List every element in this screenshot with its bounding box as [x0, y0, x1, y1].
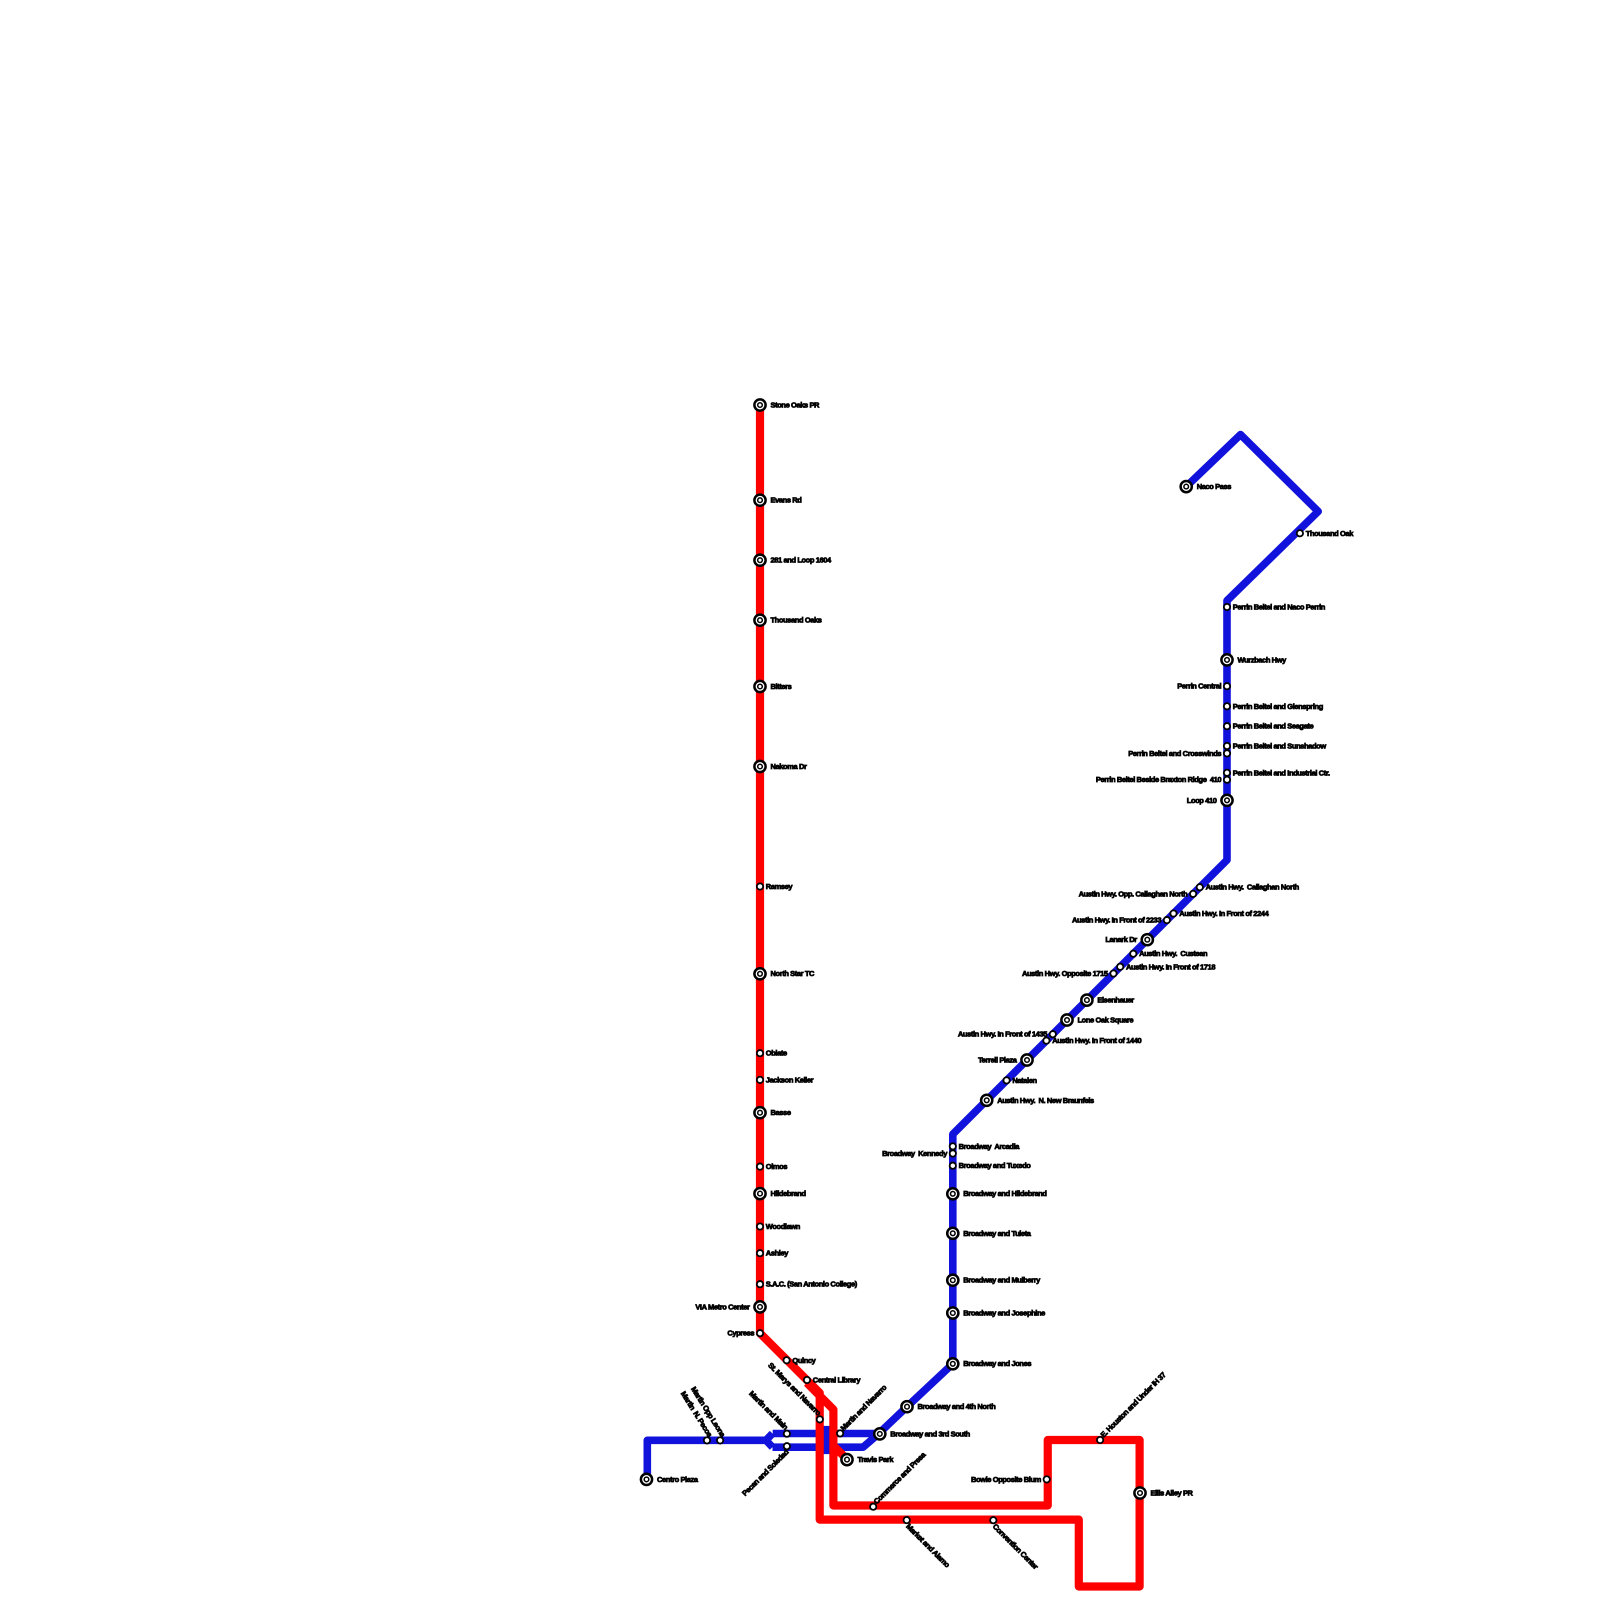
- blue stop Austin Hwy. Callaghan North: [1197, 883, 1300, 892]
- svg-text:Ashley: Ashley: [766, 1249, 789, 1258]
- red station North Star TC: [754, 968, 815, 979]
- svg-text:Loop 410: Loop 410: [1187, 796, 1217, 805]
- blue station Loop 410: [1187, 795, 1233, 806]
- svg-text:281 and Loop 1604: 281 and Loop 1604: [771, 556, 833, 565]
- blue stop Broadway Arcadia: [950, 1142, 1021, 1151]
- red stop Woodlawn: [757, 1222, 801, 1231]
- svg-text:Thousand Oaks: Thousand Oaks: [771, 616, 822, 625]
- blue stop Perrin Beitel and Industrial Ctr.: [1224, 768, 1330, 777]
- blue stop Austin Hwy. In Front of 2244: [1170, 909, 1269, 918]
- blue station Lone Oak Square: [1061, 1014, 1133, 1025]
- svg-text:Nakoma Dr: Nakoma Dr: [771, 762, 807, 771]
- blue stop Austin Hwy. In Front of 2233: [1072, 916, 1170, 925]
- blue station Terrell Plaza: [978, 1054, 1033, 1065]
- svg-text:Austin Hwy. In Front of 2244: Austin Hwy. In Front of 2244: [1179, 909, 1269, 918]
- svg-text:Broadway and Tuxedo: Broadway and Tuxedo: [959, 1161, 1032, 1170]
- red stop Olmos: [757, 1162, 788, 1171]
- red station Evans Rd: [754, 495, 802, 506]
- blue station Broadway and Hildebrand: [947, 1188, 1047, 1199]
- blue station Wurzbach Hwy: [1221, 654, 1287, 665]
- blue stop Martin N. Pecos: [679, 1390, 714, 1444]
- svg-text:Austin Hwy. Custean: Austin Hwy. Custean: [1139, 949, 1208, 958]
- blue line: west turnaround fork: [766, 1434, 773, 1448]
- blue station Broadway and Jones: [947, 1358, 1031, 1369]
- blue line: main trunk Naco Pass to downtown: [773, 435, 1318, 1434]
- svg-text:Broadway Arcadia: Broadway Arcadia: [959, 1142, 1021, 1151]
- blue stop Martin and Main: [747, 1389, 790, 1437]
- svg-text:Natalen: Natalen: [1012, 1076, 1037, 1085]
- red station VIA Metro Center: [695, 1301, 765, 1312]
- svg-text:Broadway and 4th North: Broadway and 4th North: [918, 1402, 997, 1411]
- svg-text:Broadway and Tuleta: Broadway and Tuleta: [963, 1229, 1032, 1238]
- blue stop Thousand Oak: [1297, 529, 1354, 538]
- svg-text:Broadway and Hildebrand: Broadway and Hildebrand: [963, 1189, 1047, 1198]
- red stop Market and Alamo: [904, 1517, 953, 1570]
- blue stop Martin Opp Leona: [689, 1385, 728, 1444]
- red station Ellis Alley PR: [1134, 1487, 1193, 1498]
- red stop Ashley: [757, 1249, 789, 1258]
- svg-text:Centro Plaza: Centro Plaza: [657, 1475, 699, 1484]
- svg-text:Lone Oak Square: Lone Oak Square: [1078, 1016, 1134, 1025]
- blue stop Perrin Beitel and Crosswinds: [1128, 749, 1230, 758]
- red stop St. Marys and Navarro: [766, 1361, 823, 1423]
- svg-text:Cypress: Cypress: [727, 1329, 754, 1338]
- svg-text:Terrell Plaza: Terrell Plaza: [978, 1056, 1018, 1065]
- svg-text:Perrin Beitel and Industrial C: Perrin Beitel and Industrial Ctr.: [1233, 768, 1330, 777]
- svg-text:Lanark Dr: Lanark Dr: [1105, 935, 1137, 944]
- svg-text:Woodlawn: Woodlawn: [766, 1222, 801, 1231]
- svg-text:North Star TC: North Star TC: [771, 969, 816, 978]
- svg-text:Perrin Beitel and Glenspring: Perrin Beitel and Glenspring: [1233, 702, 1324, 711]
- blue station Broadway and Tuleta: [947, 1228, 1032, 1239]
- svg-text:Central Library: Central Library: [813, 1376, 862, 1385]
- blue station Lanark Dr: [1105, 934, 1153, 945]
- svg-text:Austin Hwy. In Front of 1440: Austin Hwy. In Front of 1440: [1052, 1036, 1141, 1045]
- red stop S.A.C. (San Antonio College): [757, 1280, 858, 1289]
- svg-text:Austin Hwy. Opposite 1715: Austin Hwy. Opposite 1715: [1022, 969, 1108, 978]
- svg-text:Jackson Keller: Jackson Keller: [766, 1075, 814, 1084]
- svg-text:Naco Pass: Naco Pass: [1197, 482, 1232, 491]
- red stop Oblate: [757, 1049, 787, 1058]
- red stop E. Houston and Under IH 37: [1097, 1370, 1168, 1443]
- svg-text:Broadway and Josephine: Broadway and Josephine: [963, 1309, 1045, 1318]
- svg-text:Bitters: Bitters: [771, 682, 792, 691]
- blue station Broadway and Mulberry: [947, 1275, 1041, 1286]
- blue station Austin Hwy. N. New Braunfels: [981, 1095, 1094, 1106]
- svg-text:Perrin Beitel and Seagate: Perrin Beitel and Seagate: [1233, 722, 1314, 731]
- red line: main trunk Stone Oaks PR to downtown loop: [760, 405, 1140, 1587]
- red stop Central Library: [804, 1376, 862, 1385]
- svg-text:Oblate: Oblate: [766, 1049, 787, 1058]
- blue station Broadway and 3rd South: [874, 1428, 970, 1439]
- blue stop Pecan and Soledad: [740, 1443, 791, 1498]
- red station Stone Oaks PR: [754, 399, 820, 410]
- svg-text:Ellis Alley PR: Ellis Alley PR: [1151, 1489, 1194, 1498]
- red stop Bowie Opposite Blum: [971, 1475, 1050, 1484]
- svg-text:Broadway and Mulberry: Broadway and Mulberry: [963, 1276, 1041, 1285]
- svg-text:Hildebrand: Hildebrand: [771, 1189, 807, 1198]
- svg-text:Thousand Oak: Thousand Oak: [1306, 529, 1355, 538]
- blue stop Martin and Navarro: [837, 1383, 889, 1437]
- blue stop Broadway and Tuxedo: [950, 1161, 1032, 1170]
- blue stop Perrin Beitel and Sunshadow: [1224, 742, 1326, 751]
- svg-text:Broadway and Jones: Broadway and Jones: [963, 1359, 1031, 1368]
- red stop Cypress: [727, 1329, 763, 1338]
- red stop Commerce and Presa: [870, 1450, 928, 1510]
- svg-text:Austin Hwy. In Front of 1435: Austin Hwy. In Front of 1435: [958, 1030, 1047, 1039]
- blue stop Perrin Central: [1177, 682, 1230, 691]
- blue station Eisenhauer: [1081, 995, 1134, 1006]
- blue stop Austin Hwy. In Front of 1435: [958, 1030, 1056, 1039]
- svg-text:Wurzbach Hwy: Wurzbach Hwy: [1238, 655, 1288, 664]
- blue line: downtown return (lower) leg: [773, 1437, 876, 1448]
- blue station Naco Pass: [1181, 481, 1232, 492]
- blue stop Perrin Beitel Beside Braxton Ridge 410: [1096, 775, 1230, 784]
- blue stop Austin Hwy. Custean: [1130, 949, 1208, 958]
- blue stop Natalen: [1003, 1076, 1037, 1085]
- blue station Broadway and Josephine: [947, 1307, 1045, 1318]
- red station Hildebrand: [754, 1188, 806, 1199]
- blue stop Perrin Beitel and Seagate: [1224, 722, 1314, 731]
- red station Basse: [754, 1107, 790, 1118]
- svg-text:Olmos: Olmos: [766, 1162, 788, 1171]
- svg-text:Bowie Opposite Blum: Bowie Opposite Blum: [971, 1475, 1042, 1484]
- red station 281 and Loop 1604: [754, 555, 832, 566]
- svg-text:Broadway and 3rd South: Broadway and 3rd South: [890, 1429, 970, 1438]
- blue stop Broadway Kennedy: [882, 1149, 956, 1158]
- svg-text:Evans Rd: Evans Rd: [771, 496, 803, 505]
- svg-text:S.A.C. (San Antonio College): S.A.C. (San Antonio College): [766, 1280, 858, 1289]
- red station Nakoma Dr: [754, 761, 807, 772]
- blue line: west branch to Centro Plaza: [647, 1440, 766, 1474]
- red station Thousand Oaks: [754, 615, 821, 626]
- blue stop Austin Hwy. Opp. Callaghan North: [1079, 889, 1197, 898]
- svg-text:Austin Hwy. N. New Braunfels: Austin Hwy. N. New Braunfels: [997, 1096, 1094, 1105]
- blue stop Austin Hwy. Opposite 1715: [1022, 969, 1117, 978]
- svg-text:Perrin Beitel and Sunshadow: Perrin Beitel and Sunshadow: [1233, 742, 1327, 751]
- svg-text:Quincy: Quincy: [792, 1356, 816, 1365]
- svg-text:Basse: Basse: [771, 1108, 791, 1117]
- svg-text:VIA Metro Center: VIA Metro Center: [695, 1302, 750, 1311]
- svg-text:Austin Hwy. Callaghan North: Austin Hwy. Callaghan North: [1206, 883, 1300, 892]
- red station Travis Park: [841, 1454, 894, 1465]
- svg-text:Austin Hwy. In Front of 2233: Austin Hwy. In Front of 2233: [1072, 916, 1161, 925]
- svg-text:Stone Oaks PR: Stone Oaks PR: [771, 401, 821, 410]
- svg-text:Perrin Beitel and Crosswinds: Perrin Beitel and Crosswinds: [1128, 749, 1221, 758]
- svg-text:Austin Hwy. Opp. Callaghan Nor: Austin Hwy. Opp. Callaghan North: [1079, 889, 1189, 898]
- svg-text:Austin Hwy. In Front of 1718: Austin Hwy. In Front of 1718: [1126, 962, 1215, 971]
- svg-text:Perrin Beitel Beside Braxton R: Perrin Beitel Beside Braxton Ridge 410: [1096, 775, 1222, 784]
- red line: Travis Park spur: [833, 1446, 847, 1460]
- svg-text:Ramsey: Ramsey: [766, 882, 794, 891]
- svg-text:Eisenhauer: Eisenhauer: [1097, 996, 1134, 1005]
- red stop Ramsey: [757, 882, 794, 891]
- blue station Broadway and 4th North: [901, 1401, 996, 1412]
- blue stop Perrin Beitel and Glenspring: [1224, 702, 1324, 711]
- svg-text:Broadway Kennedy: Broadway Kennedy: [882, 1149, 948, 1158]
- blue stop Austin Hwy. In Front of 1440: [1043, 1036, 1141, 1045]
- svg-text:Perrin Beitel and Naco Perrin: Perrin Beitel and Naco Perrin: [1233, 603, 1326, 612]
- red stop Quincy: [783, 1356, 816, 1365]
- red stop Convention Center: [990, 1517, 1040, 1571]
- blue stop Austin Hwy. In Front of 1718: [1117, 962, 1215, 971]
- red stop Jackson Keller: [757, 1075, 814, 1084]
- svg-text:Travis Park: Travis Park: [858, 1455, 895, 1464]
- svg-text:Perrin Central: Perrin Central: [1177, 682, 1221, 691]
- blue line: connector between directions at crossing: [823, 1426, 831, 1454]
- red station Bitters: [754, 681, 791, 692]
- blue stop Perrin Beitel and Naco Perrin: [1224, 603, 1326, 612]
- blue station Centro Plaza: [641, 1474, 699, 1485]
